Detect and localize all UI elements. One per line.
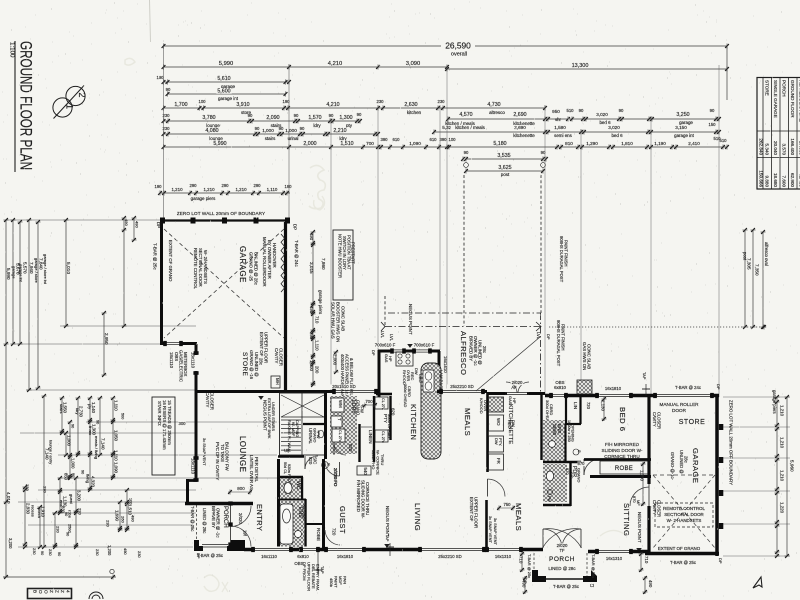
stair info box — [152, 397, 175, 475]
svg-text:LVL: LVL — [380, 331, 385, 339]
svg-text:LIN: LIN — [573, 402, 578, 409]
svg-text:920w FHO: 920w FHO — [371, 450, 376, 469]
svg-text:OWNER @ -1c: OWNER @ -1c — [473, 336, 478, 366]
svg-text:Z: Z — [60, 590, 65, 593]
svg-text:meals / living: meals / living — [94, 436, 99, 459]
svg-text:W- CORNICE: W- CORNICE — [376, 450, 381, 475]
top block extension lines — [163, 46, 165, 218]
svg-text:90: 90 — [64, 512, 68, 516]
svg-text:DP FROM: DP FROM — [302, 562, 307, 581]
svg-text:MEALS: MEALS — [463, 408, 472, 436]
svg-text:STAIR INFO:: STAIR INFO: — [157, 401, 162, 426]
svg-text:16x1410: 16x1410 — [443, 356, 448, 373]
svg-text:PORCH: PORCH — [222, 506, 228, 528]
svg-text:robe: robe — [67, 510, 72, 519]
svg-text:UNLINED @: UNLINED @ — [478, 340, 483, 365]
svg-text:GRANO-@-1c-: GRANO-@-1c- — [670, 452, 675, 481]
svg-text:AF: AF — [511, 385, 517, 390]
svg-text:WM: WM — [338, 400, 343, 408]
svg-text:WC: WC — [295, 481, 301, 490]
svg-text:90: 90 — [80, 470, 84, 474]
urinal room — [303, 423, 325, 425]
svg-text:9.880: 9.880 — [765, 176, 770, 188]
dim row store kitchen altresco — [164, 107, 546, 109]
right dimension strip — [549, 326, 767, 328]
svg-text:390: 390 — [380, 137, 388, 142]
stairs block — [280, 393, 326, 455]
svg-text:THRU: THRU — [380, 454, 385, 465]
garage bottom wall with meterbox — [160, 342, 197, 345]
svg-text:7,305: 7,305 — [747, 258, 752, 270]
bed6 dim 1130 — [603, 397, 605, 421]
svg-text:2/020: 2/020 — [238, 513, 243, 524]
svg-text:3,200: 3,200 — [8, 538, 13, 549]
svg-text:PAINT FINISH: PAINT FINISH — [564, 240, 569, 267]
svg-text:LAM BACK: LAM BACK — [439, 370, 444, 391]
svg-text:MEALS: MEALS — [514, 503, 523, 531]
svg-text:5,010: 5,010 — [65, 262, 71, 274]
svg-text:garage piers: garage piers — [318, 290, 323, 315]
svg-text:3c SNAP VENT: 3c SNAP VENT — [488, 516, 492, 543]
porch2 labels — [547, 556, 577, 563]
svg-text:T-BAR @ 25c: T-BAR @ 25c — [553, 584, 580, 589]
svg-text:5.340: 5.340 — [765, 144, 770, 156]
svg-text:2,950: 2,950 — [104, 333, 109, 345]
svg-text:700x610 F: 700x610 F — [375, 343, 396, 348]
svg-text:1,090: 1,090 — [409, 141, 421, 146]
svg-text:90: 90 — [357, 112, 362, 117]
svg-text:2,690: 2,690 — [513, 112, 526, 118]
svg-text:EXTENT OF GRANO: EXTENT OF GRANO — [658, 546, 701, 551]
svg-text:300d OHEAD: 300d OHEAD — [403, 384, 407, 408]
svg-text:SWITCH IN LDRY: SWITCH IN LDRY — [342, 236, 347, 270]
svg-text:90: 90 — [294, 113, 299, 118]
linen — [358, 424, 360, 462]
house bottom wall — [244, 548, 543, 552]
svg-text:16x1310: 16x1310 — [495, 554, 512, 559]
svg-text:190: 190 — [284, 184, 292, 189]
svg-text:7,860: 7,860 — [321, 258, 326, 270]
svg-text:PORCH: PORCH — [549, 556, 575, 563]
svg-text:OWNER @ -1c: OWNER @ -1c — [216, 508, 221, 538]
svg-text:SLIDING DOOR W-: SLIDING DOOR W- — [602, 448, 643, 453]
svg-text:UP: UP — [284, 448, 290, 453]
svg-text:F/H MIRRORED: F/H MIRRORED — [356, 480, 361, 512]
svg-text:90: 90 — [40, 551, 44, 555]
svg-text:kitchen / meals: kitchen / meals — [455, 125, 485, 130]
svg-text:100: 100 — [448, 137, 456, 142]
stairs right wall — [324, 393, 327, 459]
svg-text:altresco: altresco — [489, 110, 505, 115]
svg-text:CORNICE THRU: CORNICE THRU — [365, 482, 370, 515]
svg-text:MH: MH — [275, 378, 280, 385]
svg-text:28c: 28c — [259, 358, 264, 366]
svg-text:URINAL: URINAL — [308, 428, 313, 445]
washing machine — [331, 398, 344, 412]
guest sliding door note — [604, 442, 640, 447]
svg-text:1,810: 1,810 — [621, 141, 633, 146]
svg-text:2,690: 2,690 — [514, 125, 526, 130]
sitting dim 1000 — [642, 462, 644, 506]
kitchen nook top wall — [378, 350, 440, 353]
sitting door arc — [630, 487, 649, 506]
svg-text:500: 500 — [120, 413, 124, 419]
overall dim 26,590 — [164, 45, 728, 47]
kitchen nook left wall — [378, 350, 381, 397]
svg-text:7,350: 7,350 — [755, 264, 760, 276]
svg-text:2,730: 2,730 — [78, 406, 83, 418]
svg-text:DP: DP — [716, 384, 721, 390]
svg-text:PORCH: PORCH — [782, 80, 787, 97]
duragal post dashed lines — [463, 175, 465, 326]
svg-text:1,090: 1,090 — [113, 462, 118, 474]
svg-text:90: 90 — [329, 113, 334, 118]
ldry sliding door — [334, 389, 376, 391]
svg-text:1,000: 1,000 — [262, 128, 274, 133]
svg-text:Z: Z — [55, 590, 60, 593]
svg-text:710: 710 — [315, 316, 320, 324]
svg-text:26,590: 26,590 — [445, 41, 471, 51]
svg-text:NEGUS POINT: NEGUS POINT — [637, 512, 642, 543]
svg-text:490: 490 — [309, 306, 314, 314]
bed6 door arc — [584, 459, 600, 475]
svg-text:16x1810: 16x1810 — [337, 554, 354, 559]
svg-text:3c SNAP VENT: 3c SNAP VENT — [202, 438, 207, 466]
svg-text:alfresco oval: alfresco oval — [764, 242, 769, 266]
revision legend box — [28, 589, 72, 599]
svg-text:90: 90 — [279, 126, 284, 131]
svg-text:CLOSER: CLOSER — [210, 392, 215, 410]
svg-text:1,300: 1,300 — [339, 115, 352, 121]
svg-text:KITCHENETTE: KITCHENETTE — [507, 404, 513, 444]
svg-text:W- MDF: W- MDF — [291, 422, 295, 437]
svg-text:90: 90 — [300, 126, 305, 131]
svg-text:7,140: 7,140 — [100, 438, 105, 450]
svg-text:LINEN: LINEN — [368, 430, 373, 444]
ldry hatch floor — [330, 396, 357, 454]
svg-text:1,210: 1,210 — [780, 470, 785, 482]
svg-text:400x400 HARDIPLANK: 400x400 HARDIPLANK — [340, 354, 345, 398]
svg-text:LDRY: LDRY — [350, 400, 356, 414]
svg-text:3,250: 3,250 — [676, 112, 689, 118]
svg-text:16x1110: 16x1110 — [261, 554, 277, 559]
meals wall with arc — [485, 500, 488, 549]
svg-text:90: 90 — [255, 126, 260, 131]
svg-text:20720 FO: 20720 FO — [333, 468, 338, 487]
svg-text:T-BAR @ 25c: T-BAR @ 25c — [591, 554, 596, 578]
svg-text:OBS: OBS — [174, 352, 179, 361]
540 box — [357, 466, 371, 475]
dim 3,535 — [466, 158, 543, 160]
sitting bottom wall — [588, 550, 649, 554]
svg-text:90: 90 — [710, 108, 715, 113]
svg-text:ALFRESCO: ALFRESCO — [459, 331, 468, 375]
svg-text:15 TREADS @ 250mm: 15 TREADS @ 250mm — [167, 400, 172, 445]
svg-text:750: 750 — [503, 502, 511, 507]
svg-text:CONC SLAB: CONC SLAB — [341, 306, 346, 331]
svg-text:7,940: 7,940 — [29, 262, 34, 274]
store left wall — [195, 344, 198, 481]
svg-text:STORE: STORE — [765, 80, 770, 96]
svg-text:UPPER FLOOR: UPPER FLOOR — [474, 497, 479, 528]
svg-text:908HS DURAGAL POST: 908HS DURAGAL POST — [559, 236, 564, 283]
guest door — [339, 462, 341, 476]
svg-text:pty: pty — [346, 123, 353, 128]
svg-text:UNDER STAIRS: UNDER STAIRS — [271, 402, 276, 431]
svg-text:1,050: 1,050 — [113, 430, 118, 442]
svg-text:13,300: 13,300 — [572, 63, 589, 69]
left block overall line — [3, 576, 116, 578]
svg-text:FR: FR — [496, 458, 501, 464]
svg-text:bed 6: bed 6 — [611, 133, 623, 138]
svg-text:230: 230 — [25, 484, 30, 491]
svg-text:B: B — [33, 590, 38, 593]
svg-text:MANUAL ROLLER: MANUAL ROLLER — [659, 402, 699, 407]
svg-text:1,110: 1,110 — [113, 400, 118, 411]
svg-text:NOTE HWU BOOSTER: NOTE HWU BOOSTER — [338, 234, 343, 278]
svg-text:lounge / entry: lounge / entry — [48, 440, 53, 464]
svg-text:O: O — [38, 590, 43, 594]
svg-text:2,000: 2,000 — [333, 354, 338, 366]
svg-text:1,110: 1,110 — [315, 340, 320, 351]
svg-text:1,000: 1,000 — [285, 128, 297, 133]
svg-text:1,190: 1,190 — [654, 141, 666, 146]
note hwu booster box — [333, 230, 353, 300]
svg-text:16x1310: 16x1310 — [606, 556, 623, 561]
svg-text:260: 260 — [120, 516, 125, 523]
svg-text:PVC DP IN CAVITY: PVC DP IN CAVITY — [215, 442, 220, 480]
mh box — [271, 376, 280, 388]
svg-text:1,580: 1,580 — [554, 125, 566, 130]
svg-text:25x2210 SD: 25x2210 SD — [450, 384, 473, 389]
svg-text:20x1510 SD: 20x1510 SD — [332, 384, 355, 389]
svg-text:LIVING: LIVING — [413, 503, 422, 531]
svg-text:PTY.: PTY. — [498, 438, 503, 446]
svg-text:4,210: 4,210 — [328, 61, 343, 67]
svg-text:F/H MIRRORED: F/H MIRRORED — [605, 442, 640, 447]
svg-text:5,960: 5,960 — [790, 460, 795, 472]
svg-text:7.600: 7.600 — [782, 176, 787, 188]
svg-text:3,090: 3,090 — [406, 61, 421, 67]
north arrow — [753, 577, 762, 588]
svg-text:810: 810 — [565, 141, 573, 146]
svg-text:450b: 450b — [329, 578, 334, 588]
svg-text:262.840: 262.840 — [759, 138, 764, 155]
svg-text:230: 230 — [77, 508, 82, 515]
semi ens — [543, 420, 565, 462]
svg-text:overall: overall — [451, 52, 467, 58]
svg-text:GRANO @ -25: GRANO @ -25 — [249, 252, 254, 282]
garage piers dim row — [160, 192, 290, 194]
dim row 5,990 4,210 3,090 — [164, 66, 448, 68]
svg-text:DBL REBATE: DBL REBATE — [311, 564, 316, 589]
svg-text:FW: FW — [547, 496, 551, 502]
svg-text:DP: DP — [156, 222, 161, 228]
stamp arc — [89, 592, 103, 599]
wc floor hatch — [280, 479, 301, 499]
tap mark bottom — [389, 543, 391, 556]
svg-text:S/C: S/C — [313, 457, 318, 464]
svg-text:1,110: 1,110 — [113, 450, 118, 461]
svg-text:S: S — [326, 463, 331, 466]
svg-text:+FW: +FW — [360, 404, 365, 413]
svg-text:STORE: STORE — [241, 352, 248, 377]
svg-text:CAPPING: CAPPING — [295, 420, 299, 437]
svg-text:6x810: 6x810 — [297, 554, 309, 559]
svg-text:1,200: 1,200 — [107, 545, 112, 556]
svg-text:50d CL: 50d CL — [283, 462, 287, 474]
garage2 bottom wall — [645, 552, 719, 556]
svg-text:S/D 0820: S/D 0820 — [302, 504, 307, 521]
meals top wall with sliding door — [437, 390, 487, 393]
svg-text:ZERO LOT WALL 20mm OFF BOUNDAR: ZERO LOT WALL 20mm OFF BOUNDARY — [729, 400, 734, 485]
svg-text:T-BAR @ 24c: T-BAR @ 24c — [675, 385, 702, 390]
svg-text:1,000: 1,000 — [66, 435, 71, 447]
svg-text:62.900: 62.900 — [790, 173, 795, 187]
svg-text:200: 200 — [315, 366, 320, 374]
svg-text:GUEST: GUEST — [338, 506, 347, 534]
svg-text:90: 90 — [65, 532, 69, 536]
svg-text:4,320: 4,320 — [90, 476, 95, 488]
svg-text:300: 300 — [178, 421, 186, 426]
svg-text:3,780: 3,780 — [202, 115, 215, 121]
window jamb blocks — [251, 547, 255, 552]
svg-text:CAVITY: CAVITY — [274, 348, 279, 363]
svg-text:NEGUS POINT: NEGUS POINT — [385, 506, 390, 537]
entry double doors — [230, 505, 232, 546]
svg-text:1,510: 1,510 — [127, 504, 132, 516]
svg-text:GARAGE: GARAGE — [238, 246, 247, 283]
svg-text:BALCONY FW: BALCONY FW — [225, 442, 230, 472]
dim row garage int 5,600 — [168, 93, 286, 95]
svg-text:490: 490 — [123, 548, 128, 555]
porch2 recess — [533, 553, 535, 576]
svg-text:ZERO LOT WALL 20mm OF BOUNDARY: ZERO LOT WALL 20mm OF BOUNDARY — [177, 211, 265, 216]
svg-text:LOUNGE: LOUNGE — [238, 436, 247, 473]
svg-text:90: 90 — [619, 108, 624, 113]
area schedule table — [757, 78, 800, 190]
svg-text:SOLAR HWU GAS: SOLAR HWU GAS — [331, 302, 336, 339]
svg-text:GROUND FLOOR PLAN: GROUND FLOOR PLAN — [17, 41, 36, 170]
svg-text:Z: Z — [49, 590, 54, 593]
svg-text:90: 90 — [464, 150, 469, 155]
svg-text:490: 490 — [522, 580, 527, 588]
svg-text:5,990: 5,990 — [6, 268, 11, 280]
svg-text:CL 27c: CL 27c — [338, 430, 342, 442]
svg-text:700x610 F: 700x610 F — [414, 343, 435, 348]
svg-text:90: 90 — [166, 87, 171, 92]
svg-text:5,570: 5,570 — [22, 262, 27, 274]
svg-text:REMOTE CONTROL: REMOTE CONTROL — [663, 506, 705, 511]
alfresco diagonal — [476, 337, 540, 391]
svg-text:CLOSER: CLOSER — [657, 412, 662, 429]
right garage piers dims — [723, 396, 790, 398]
svg-text:LINED @ 28c: LINED @ 28c — [202, 508, 207, 533]
svg-text:2,000: 2,000 — [303, 141, 316, 147]
svg-text:5,610: 5,610 — [217, 76, 230, 82]
svg-text:2,830: 2,830 — [25, 503, 30, 515]
svg-text:T-BAR @ 25c: T-BAR @ 25c — [190, 506, 195, 531]
svg-text:2,410: 2,410 — [688, 141, 700, 146]
svg-text:1,510: 1,510 — [340, 141, 353, 147]
svg-text:90: 90 — [71, 473, 75, 477]
hall south wall — [185, 502, 253, 505]
svg-text:DP: DP — [546, 334, 551, 340]
svg-text:700: 700 — [365, 399, 373, 404]
svg-text:1,300: 1,300 — [91, 424, 96, 436]
svg-text:166.400: 166.400 — [790, 138, 795, 155]
svg-text:DP: DP — [371, 350, 376, 356]
svg-text:CL 27c: CL 27c — [381, 431, 385, 443]
svg-text:230: 230 — [137, 551, 142, 558]
right top wall — [545, 394, 719, 398]
svg-text:720: 720 — [586, 402, 591, 410]
svg-text:T-BAR @ 25c: T-BAR @ 25c — [670, 560, 697, 565]
svg-text:MDF: MDF — [338, 576, 343, 585]
svg-text:90: 90 — [579, 108, 584, 113]
svg-text:2,210: 2,210 — [333, 128, 346, 134]
ens floor hatch — [280, 501, 304, 547]
kitchenette ohead wall — [540, 393, 542, 460]
stair treads — [281, 419, 301, 421]
svg-text:garage piers: garage piers — [772, 390, 777, 414]
svg-text:1,210: 1,210 — [235, 187, 247, 192]
svg-text:230: 230 — [32, 548, 37, 555]
svg-text:LINED @ 28c: LINED @ 28c — [548, 566, 576, 571]
svg-text:PAINT FINISH: PAINT FINISH — [561, 324, 566, 351]
ens bath — [280, 504, 293, 544]
svg-text:garage int: garage int — [218, 96, 239, 101]
dim row lounge stairs ldry pty — [164, 120, 361, 122]
alfresco corner marks — [381, 322, 385, 331]
svg-text:TO TAKE: TO TAKE — [220, 444, 225, 462]
svg-text:B/PAVED BY: B/PAVED BY — [469, 336, 474, 361]
garage2 right wall — [715, 396, 719, 556]
svg-text:ROBE: ROBE — [615, 466, 633, 472]
750 dim — [497, 507, 515, 509]
dim 3,625 post — [466, 170, 543, 172]
stair winders cross — [281, 395, 324, 417]
svg-text:kitchenette: kitchenette — [513, 133, 535, 138]
svg-text:W- 2 HANDSETS: W- 2 HANDSETS — [667, 518, 702, 523]
svg-text:90: 90 — [248, 113, 253, 118]
svg-text:1,290: 1,290 — [586, 141, 598, 146]
svg-text:510: 510 — [719, 138, 727, 143]
svg-text:1,220: 1,220 — [780, 502, 785, 514]
svg-text:KITCHEN: KITCHEN — [409, 404, 418, 440]
kitchen nook right wall — [438, 351, 441, 393]
svg-text:B/PAVE BY: B/PAVE BY — [211, 506, 216, 528]
svg-text:GRANO: GRANO — [577, 468, 582, 482]
svg-text:STORE: STORE — [679, 419, 706, 426]
svg-text:230: 230 — [95, 549, 100, 556]
svg-text:SECTIONAL DOOR: SECTIONAL DOOR — [664, 512, 704, 517]
svg-text:semi ens: semi ens — [554, 133, 573, 138]
porch2 double doors — [543, 529, 562, 548]
svg-text:230: 230 — [105, 520, 110, 527]
svg-text:290: 290 — [221, 183, 229, 188]
svg-text:1,300: 1,300 — [309, 360, 314, 371]
svg-text:PAINT: PAINT — [334, 576, 339, 588]
svg-text:garage int: garage int — [674, 133, 695, 138]
manual roller door label — [659, 402, 699, 407]
svg-text:1,000: 1,000 — [640, 470, 645, 481]
svg-text:3,625: 3,625 — [498, 165, 511, 171]
svg-text:90: 90 — [70, 424, 74, 428]
svg-text:PAN: PAN — [343, 576, 348, 584]
svg-text:T-BAR @ 24c: T-BAR @ 24c — [294, 240, 299, 267]
svg-text:METERBOX: METERBOX — [183, 352, 188, 376]
